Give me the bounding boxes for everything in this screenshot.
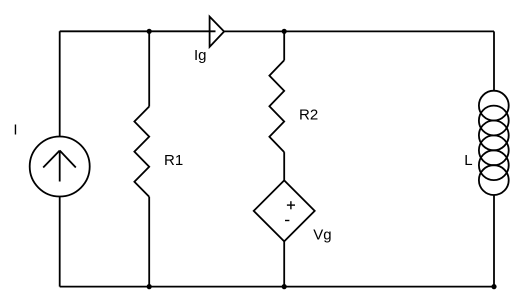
svg-text:R1: R1 bbox=[164, 152, 183, 169]
svg-text:Vg: Vg bbox=[313, 227, 331, 244]
svg-text:Ig: Ig bbox=[194, 47, 207, 64]
current source I bbox=[30, 137, 90, 197]
wire L branch bottom bbox=[493, 195, 495, 287]
svg-text:I: I bbox=[13, 122, 17, 139]
inductor L bbox=[479, 91, 509, 195]
current arrow Ig bbox=[210, 17, 225, 47]
dependent voltage source Vg bbox=[254, 180, 315, 241]
svg-text:R2: R2 bbox=[299, 106, 318, 123]
resistor R2 bbox=[269, 60, 284, 152]
junction bottom of R1 bbox=[147, 284, 152, 289]
wire top rail left segment bbox=[60, 30, 216, 32]
junction top of R1 bbox=[147, 29, 152, 34]
resistor R1 bbox=[134, 107, 149, 197]
junction bottom of Vg bbox=[282, 284, 287, 289]
wire L branch top bbox=[493, 31, 495, 90]
svg-text:L: L bbox=[464, 152, 472, 169]
wire R1 branch bottom bbox=[148, 197, 150, 287]
wire Vg branch bottom bbox=[283, 241, 285, 286]
wire left rail lower bbox=[59, 197, 61, 287]
junction top of R2 bbox=[282, 29, 287, 34]
wire top rail right segment bbox=[224, 30, 494, 32]
wire R2 to Vg bbox=[283, 152, 285, 180]
wire left rail upper bbox=[59, 31, 61, 136]
wire R1 branch top bbox=[148, 31, 150, 106]
wire R2 branch top bbox=[283, 31, 285, 60]
junction bottom right bbox=[491, 284, 496, 289]
wire bottom rail bbox=[60, 286, 494, 288]
